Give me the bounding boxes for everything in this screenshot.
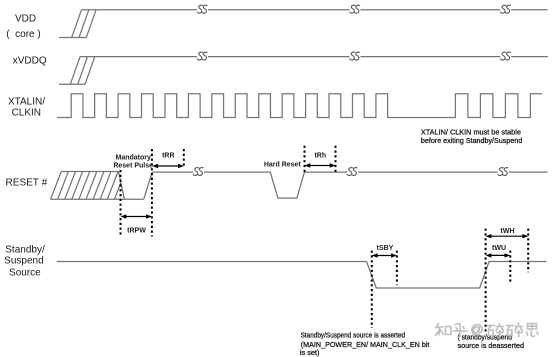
svg-text:XTALIN/ CLKIN must be stable: XTALIN/ CLKIN must be stable [421,130,521,137]
svg-text:VDD: VDD [15,13,36,24]
svg-text:Suspend: Suspend [4,256,43,267]
svg-text:( core ): ( core ) [6,29,40,40]
svg-text:tWU: tWU [492,245,506,252]
svg-text:Standby/: Standby/ [5,245,45,256]
svg-text:RESET #: RESET # [6,178,48,189]
svg-text:Standby/Suspend source is asse: Standby/Suspend source is asserted [301,332,406,339]
svg-text:Mandatory: Mandatory [115,155,151,162]
svg-text:Reset Pulse: Reset Pulse [113,163,153,170]
svg-text:Hard Reset: Hard Reset [264,162,302,169]
svg-text:tRR: tRR [162,153,174,160]
svg-text:tSBY: tSBY [377,245,394,252]
svg-text:CLKIN: CLKIN [12,108,41,119]
svg-text:(MAIN_POWER_EN/ MAIN_CLK_EN bi: (MAIN_POWER_EN/ MAIN_CLK_EN bit [301,342,430,349]
svg-text:is set): is set) [300,350,320,357]
svg-text:before exiting Standby/Suspend: before exiting Standby/Suspend [421,138,522,145]
svg-text:Source: Source [9,267,41,278]
svg-text:( standby/suspend: ( standby/suspend [458,335,513,342]
svg-text:tWH: tWH [501,228,515,235]
svg-text:tRh: tRh [314,153,326,160]
svg-text:tRPW: tRPW [127,228,146,235]
svg-text:XTALIN/: XTALIN/ [8,96,45,107]
svg-text:xVDDQ: xVDDQ [13,55,47,66]
svg-text:source is deasserted: source is deasserted [458,343,525,350]
